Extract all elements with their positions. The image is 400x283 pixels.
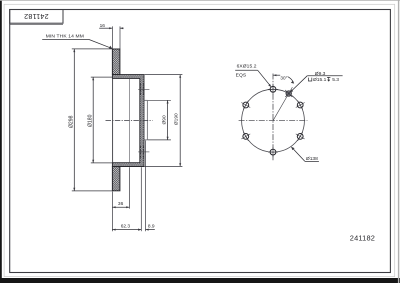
D9.3 hole with counterbore (285, 90, 292, 97)
dim 36 extension line right (128, 167, 130, 208)
label 6X D15.2 EQS (235, 63, 271, 87)
dim D190 extension lines (145, 74, 183, 76)
bolt hole lower-right (296, 132, 305, 141)
svg-text:Ø15.1: Ø15.1 (313, 77, 327, 83)
counterbore symbol (308, 78, 311, 81)
register collar (behind, right of mounting face) (144, 100, 147, 140)
depth symbol (327, 77, 330, 81)
dim 16 line + arrows (99, 27, 123, 29)
scan edge line right (398, 0, 399, 283)
bolt circle D138 (242, 89, 305, 152)
cavity edge line at disc face (112, 78, 114, 162)
dim D180 extension lines (91, 76, 113, 78)
scan edge strip bottom (0, 278, 400, 283)
dim 16 extension lines (111, 26, 113, 48)
dim D180 line (92, 77, 94, 163)
svg-text:16: 16 (100, 23, 106, 29)
title box top-left (10, 10, 63, 25)
stud hole upper (dashed, on plate) (138, 83, 149, 95)
dim D90 extension lines (148, 99, 171, 101)
bolt hole upper-left (241, 101, 250, 110)
30 deg dimension (273, 74, 294, 83)
label D138 (291, 147, 319, 162)
friction ring lower (hatched) (112, 166, 120, 191)
hat profile: neck strips + mounting plate (hatched) (112, 75, 144, 167)
dim D190 line (179, 75, 181, 167)
bolt hole bottom (268, 147, 278, 157)
svg-text:8.9: 8.9 (148, 223, 155, 229)
bolt hole top (268, 84, 278, 94)
scan edge line top (0, 0, 400, 2)
svg-text:36: 36 (118, 201, 124, 207)
svg-text:Ø190: Ø190 (174, 113, 180, 125)
svg-text:241182: 241182 (350, 234, 375, 243)
svg-text:62.3: 62.3 (121, 223, 131, 229)
label D9.3 counterbore (290, 71, 343, 93)
scan edge strip left (0, 0, 2, 283)
svg-text:MIN THK 14 MM: MIN THK 14 MM (46, 34, 84, 40)
friction ring upper (hatched) (112, 49, 120, 75)
dim 36 line (112, 206, 129, 208)
svg-text:EQS: EQS (236, 73, 247, 79)
horizontal centerline (239, 120, 308, 122)
dim D298 line (73, 49, 75, 191)
svg-text:6XØ15.2: 6XØ15.2 (237, 63, 257, 69)
svg-text:Ø298: Ø298 (69, 115, 75, 128)
stud hole lower (dashed, on plate) (138, 146, 149, 158)
radial line to D9.3 hole (30 deg) (273, 87, 292, 121)
vertical centerline (272, 74, 274, 161)
cavity edge line at neck bend (128, 78, 130, 162)
dim D298 extension lines (72, 48, 112, 50)
bolt hole upper-right (296, 101, 305, 110)
svg-text:241182: 241182 (24, 12, 49, 21)
svg-text:30°: 30° (280, 76, 287, 81)
section centerline (106, 120, 153, 122)
dim 8.9 tail + arrow (138, 229, 155, 231)
dim 62.3 line (112, 229, 141, 231)
dim 62.3 extension lines (111, 192, 113, 232)
bolt hole lower-left (241, 132, 250, 141)
svg-text:Ø180: Ø180 (87, 114, 93, 127)
svg-text:Ø138: Ø138 (306, 156, 318, 162)
svg-text:5.3: 5.3 (332, 77, 339, 83)
MIN THK label (42, 34, 112, 49)
dim D90 line (167, 100, 169, 140)
svg-text:Ø90: Ø90 (161, 115, 167, 124)
